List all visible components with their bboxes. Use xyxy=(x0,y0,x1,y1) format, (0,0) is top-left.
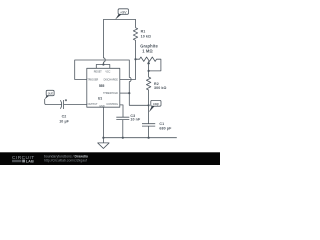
wire gnd pin down xyxy=(102,107,104,138)
svg-text:10 µF: 10 µF xyxy=(59,120,69,124)
junction dot C3 rail xyxy=(122,137,124,139)
svg-text:GND: GND xyxy=(99,105,105,108)
svg-text:555: 555 xyxy=(99,84,105,88)
pot wiper arrow xyxy=(148,63,150,71)
label C3 10 nF xyxy=(130,114,141,121)
svg-text:U1: U1 xyxy=(98,96,102,100)
capacitor C2 10 uF polarized xyxy=(63,100,65,109)
label C1 680 pF xyxy=(159,122,172,130)
svg-text:C2: C2 xyxy=(62,114,67,118)
op box 555 timer U1 xyxy=(87,68,120,107)
wire threshold stub xyxy=(120,92,130,94)
node VCC/RESET bar xyxy=(96,65,110,69)
svg-text:300 kΩ: 300 kΩ xyxy=(154,86,166,90)
capacitor C3 10 nF xyxy=(116,117,129,138)
footer bar xyxy=(0,152,220,165)
label R2 300 kOhm xyxy=(154,82,166,90)
svg-text:out: out xyxy=(48,91,53,95)
ground symbol xyxy=(98,138,109,149)
junction dot wiper/R2 xyxy=(148,70,150,72)
svg-text:RESET: RESET xyxy=(94,70,103,73)
svg-text:http://circuitlab.com/c/2kgauf: http://circuitlab.com/c/2kgauf xyxy=(44,158,87,162)
footer credit text xyxy=(44,154,88,162)
logo CIRCUIT LAB xyxy=(12,155,35,164)
svg-text:THRESHOLD: THRESHOLD xyxy=(103,92,118,95)
svg-text:CONTROL: CONTROL xyxy=(106,103,118,106)
potentiometer Graphite 1 MOhm xyxy=(136,57,161,71)
wire trigger loop with hop over discharge wire xyxy=(75,60,149,105)
resistor R1 xyxy=(133,28,137,60)
wire discharge pin to pot-left junction xyxy=(120,59,136,79)
label Graphite 1 MOhm xyxy=(140,44,158,54)
svg-text:+9V: +9V xyxy=(120,10,127,14)
plus sign C2 xyxy=(65,99,67,101)
svg-text:TRIGGER: TRIGGER xyxy=(87,79,98,82)
wire +9V top rail to R1 xyxy=(103,19,135,27)
svg-text:R1: R1 xyxy=(141,29,146,33)
wire +9V vertical down to VCC bar with hop over trigger wire xyxy=(103,19,105,64)
wire control to C3 xyxy=(120,105,123,117)
svg-text:10 nF: 10 nF xyxy=(130,118,141,122)
wire output to C2 xyxy=(64,104,87,106)
svg-text:cap: cap xyxy=(153,102,159,106)
resistor R2 xyxy=(146,71,150,105)
net label cap xyxy=(151,100,161,106)
svg-text:1 MΩ: 1 MΩ xyxy=(142,49,153,54)
capacitor C1 680 pF xyxy=(142,105,155,137)
net label +9V xyxy=(118,9,128,15)
svg-text:OUTPUT: OUTPUT xyxy=(88,103,98,106)
label C2 10 uF xyxy=(59,114,69,123)
junction dot C1 rail xyxy=(148,137,150,139)
svg-text:VCC: VCC xyxy=(105,70,110,73)
svg-text:DISCHARGE: DISCHARGE xyxy=(104,79,119,82)
label R1 10 kOhm xyxy=(141,29,151,38)
junction dot gnd xyxy=(102,137,104,139)
ground rail wire xyxy=(103,137,176,139)
svg-text:680 pF: 680 pF xyxy=(159,126,172,130)
junction dot VCC bar xyxy=(102,63,104,65)
junction dot cap node xyxy=(148,104,150,106)
net label out xyxy=(46,90,54,95)
junction dot threshold xyxy=(128,92,130,94)
junction dot R1 / pot / discharge xyxy=(134,58,136,60)
pin names 555 xyxy=(87,70,118,108)
svg-text:LAB: LAB xyxy=(26,159,34,164)
svg-text:10 kΩ: 10 kΩ xyxy=(141,35,151,39)
svg-text:C1: C1 xyxy=(159,122,164,126)
